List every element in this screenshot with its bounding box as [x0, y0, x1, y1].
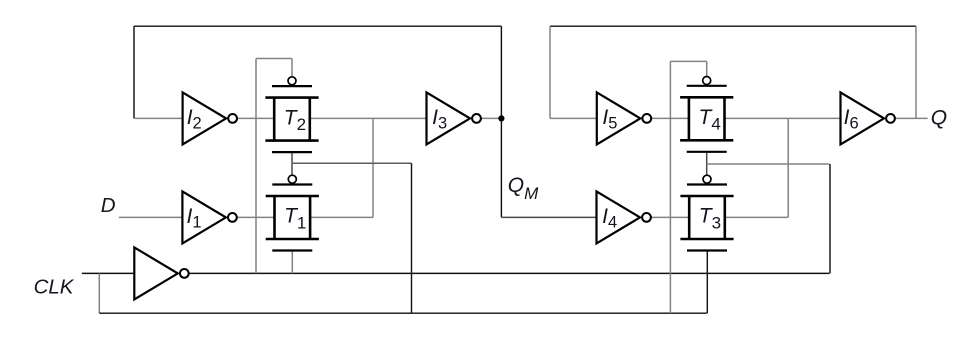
- wire CLK bottom bus: [99, 312, 707, 314]
- wire T4 bottom gate to T3 top gate: [706, 152, 708, 176]
- wire I4 output to T3: [651, 216, 689, 218]
- wire slave feedback drop x916: [915, 26, 917, 118]
- wire I5 input: [550, 117, 597, 119]
- transmission gate T3: [680, 175, 733, 250]
- inverter I5: [597, 92, 651, 144]
- transmission gate T4: [680, 77, 733, 152]
- node QM junction dot: [498, 115, 504, 121]
- wire I6 output to Q: [895, 117, 928, 119]
- wire T4 top gate drop to bubble: [706, 61, 708, 78]
- wire T4 output to I6: [725, 117, 841, 119]
- transmission gate T2: [265, 77, 318, 152]
- wire slave rail drop to I5 input: [549, 26, 551, 118]
- wire CLK junction drop: [98, 273, 100, 313]
- inverter I1: [182, 191, 236, 243]
- inverter I4: [597, 191, 651, 243]
- wire clock tap horizontal y164: [707, 163, 830, 165]
- wire CLKbar bus: [189, 272, 830, 274]
- wire clock tap horizontal y163: [292, 162, 412, 164]
- wire node QM vertical up to rail: [500, 26, 502, 118]
- inverter I2: [183, 92, 237, 144]
- transmission gate T1: [266, 175, 319, 250]
- wire CLKbar riser x256: [255, 59, 257, 274]
- wire T3 bottom gate drop: [706, 251, 708, 313]
- wire T1 output rising to node X: [372, 118, 374, 217]
- wire node QM vertical down: [500, 118, 502, 217]
- wire clock tap drop x411: [411, 163, 413, 313]
- wire T2 bottom gate to T1 top gate: [291, 152, 293, 177]
- wire T2 top gate drop to bubble: [291, 59, 293, 78]
- wire T2 top gate horizontal: [256, 58, 292, 60]
- svg-text:CLK: CLK: [34, 276, 75, 299]
- wire I1 output to T1: [237, 216, 275, 218]
- wire left vertical to I2 input: [133, 26, 135, 118]
- svg-text:D: D: [101, 194, 116, 217]
- wire QM to I4 input: [501, 216, 596, 218]
- wire master feedback top rail: [134, 25, 501, 27]
- wire CLK riser x670: [669, 61, 671, 313]
- wire clock tap drop x829: [829, 164, 831, 273]
- wire I3 output to node QM: [481, 117, 502, 119]
- wire T1 output: [310, 216, 373, 218]
- svg-text:Q: Q: [931, 106, 947, 129]
- wire T3 output rising to I6 input node: [787, 118, 789, 217]
- wire I5 output to T4: [651, 117, 689, 119]
- wire CLK input: [82, 272, 135, 274]
- wire slave feedback top rail: [550, 25, 916, 27]
- wire I2 output to T2: [237, 117, 274, 119]
- inverter I6: [841, 92, 895, 144]
- inverter CLK (unlabelled): [134, 247, 188, 299]
- wire T4 top gate horizontal: [670, 60, 706, 62]
- wire T2 output to I3: [310, 117, 427, 119]
- wire T3 output: [725, 216, 788, 218]
- wire I2 input: [134, 117, 183, 119]
- inverter I3: [427, 92, 481, 144]
- wire D input: [119, 216, 182, 218]
- wire T1 bottom gate drop: [291, 251, 293, 274]
